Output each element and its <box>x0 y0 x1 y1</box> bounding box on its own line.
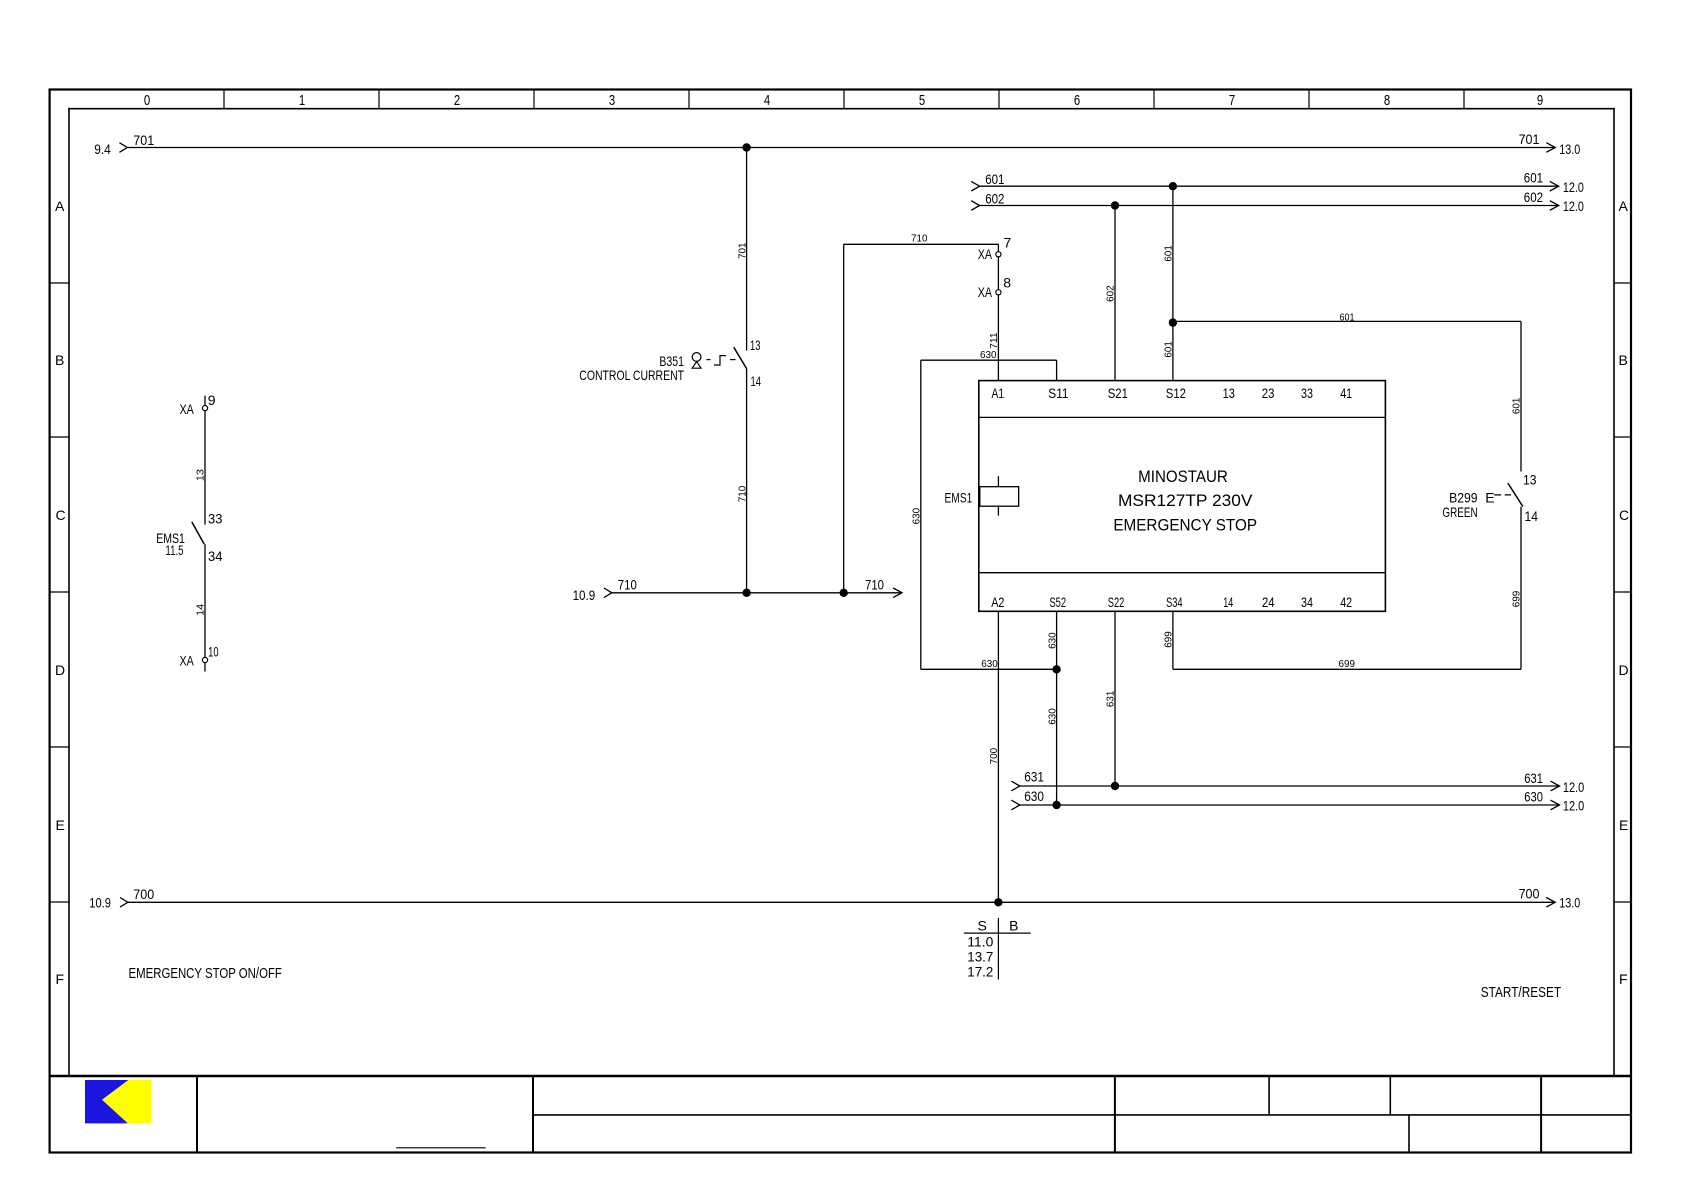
svg-text:14: 14 <box>751 373 762 389</box>
svg-text:B: B <box>1619 352 1628 368</box>
svg-text:601: 601 <box>1163 245 1175 262</box>
safety relay U1 MINOSTAUR MSR127TP 230V <box>979 381 1386 612</box>
svg-text:CONTROL CURRENT: CONTROL CURRENT <box>579 367 684 383</box>
svg-text:7: 7 <box>1004 234 1012 250</box>
junction 601/S12 <box>1169 182 1177 190</box>
svg-text:B: B <box>1009 918 1018 934</box>
svg-text:630: 630 <box>1046 632 1058 649</box>
svg-text:S52: S52 <box>1050 594 1067 610</box>
svg-text:701: 701 <box>1519 131 1540 147</box>
wire 13 XA:9 to EMS1:33 <box>195 411 207 525</box>
svg-text:S: S <box>978 918 987 934</box>
wire 14 EMS1:34 to XA:10 <box>195 544 207 657</box>
svg-text:33: 33 <box>208 511 223 527</box>
svg-text:601: 601 <box>1511 398 1523 415</box>
svg-text:10: 10 <box>208 643 219 659</box>
wire 630 loop S11 to S52 <box>911 349 1057 670</box>
svg-text:C: C <box>56 507 66 523</box>
wire 631 horizontal (to 12.0) <box>1011 781 1559 791</box>
svg-text:13: 13 <box>195 469 207 481</box>
svg-text:23: 23 <box>1262 385 1275 401</box>
svg-text:9: 9 <box>1537 92 1543 109</box>
svg-text:11.0: 11.0 <box>967 934 993 950</box>
svg-text:14: 14 <box>1223 594 1233 610</box>
svg-text:711: 711 <box>988 332 1000 349</box>
svg-text:42: 42 <box>1340 594 1352 610</box>
svg-text:631: 631 <box>1524 770 1543 786</box>
svg-text:START/RESET: START/RESET <box>1481 984 1561 1001</box>
svg-text:8: 8 <box>1003 274 1011 290</box>
svg-text:602: 602 <box>1524 189 1543 205</box>
wire 701 (9.4 to 13.0) <box>119 143 1555 153</box>
svg-text:630: 630 <box>981 658 998 670</box>
svg-text:A: A <box>1619 198 1629 214</box>
svg-text:630: 630 <box>980 349 997 361</box>
svg-text:630: 630 <box>1024 788 1044 804</box>
svg-text:601: 601 <box>985 171 1004 187</box>
svg-text:710: 710 <box>618 577 637 593</box>
wire 710 riser to XA:7 <box>844 233 999 593</box>
svg-text:33: 33 <box>1301 385 1313 401</box>
svg-text:710: 710 <box>736 486 748 503</box>
svg-text:MINOSTAUR: MINOSTAUR <box>1138 467 1228 486</box>
svg-text:6: 6 <box>1074 92 1080 109</box>
svg-text:GREEN: GREEN <box>1442 504 1477 520</box>
wire 630 horizontal (to 12.0) <box>1011 800 1559 810</box>
svg-text:A2: A2 <box>991 594 1004 610</box>
wire 602 riser to U1:S21 <box>1105 206 1117 381</box>
wire 602 horizontal (to 12.0) <box>971 201 1558 211</box>
svg-text:XA: XA <box>180 401 195 417</box>
wire 710 horizontal (10.9 to relay) <box>604 588 902 598</box>
wire 601 branch to B299:13 <box>1173 312 1523 472</box>
svg-text:699: 699 <box>1163 631 1175 648</box>
svg-text:701: 701 <box>736 242 748 259</box>
wire 631 S22 drop <box>1105 611 1117 786</box>
svg-text:9: 9 <box>208 392 216 408</box>
svg-text:12.0: 12.0 <box>1563 798 1585 814</box>
junction 601 branch to B299 <box>1169 318 1177 326</box>
svg-text:MSR127TP 230V: MSR127TP 230V <box>1118 491 1253 510</box>
svg-text:EMERGENCY STOP ON/OFF: EMERGENCY STOP ON/OFF <box>129 965 282 982</box>
wire 701 vertical to B351:13 <box>736 148 748 351</box>
svg-text:17.2: 17.2 <box>967 964 993 980</box>
wire 630 S52 drop <box>1046 611 1058 805</box>
svg-text:13.0: 13.0 <box>1559 141 1580 157</box>
title block <box>50 1076 1631 1152</box>
svg-text:B: B <box>55 352 64 368</box>
svg-text:A: A <box>55 198 65 214</box>
svg-text:631: 631 <box>1024 769 1044 785</box>
svg-text:12.0: 12.0 <box>1563 779 1585 795</box>
net label 701 left with source 9.4 <box>94 132 154 157</box>
svg-text:2: 2 <box>454 92 460 109</box>
svg-text:4: 4 <box>764 92 770 109</box>
svg-text:1: 1 <box>299 92 305 109</box>
connector XA pin 10 <box>180 643 219 671</box>
svg-text:S34: S34 <box>1166 594 1183 610</box>
svg-text:602: 602 <box>985 190 1004 206</box>
svg-text:701: 701 <box>133 132 154 148</box>
svg-text:601: 601 <box>1524 170 1543 186</box>
coil EMS1 <box>945 476 1019 515</box>
svg-text:E: E <box>1485 489 1494 505</box>
switch B351 CONTROL CURRENT <box>579 337 761 389</box>
svg-text:S22: S22 <box>1108 594 1125 610</box>
connector XA pin 8 <box>978 274 1012 300</box>
svg-text:14: 14 <box>195 604 207 616</box>
svg-text:13.0: 13.0 <box>1559 895 1580 911</box>
logo <box>85 1080 152 1123</box>
svg-text:630: 630 <box>1524 789 1543 805</box>
junction 710/XA7 branch <box>840 589 848 597</box>
svg-text:34: 34 <box>208 548 223 564</box>
junction 602/S21 <box>1111 201 1119 209</box>
svg-text:A1: A1 <box>992 385 1005 401</box>
svg-text:13: 13 <box>750 337 761 353</box>
svg-text:24: 24 <box>1262 594 1275 610</box>
net label 631 right with destination 12.0 <box>1524 770 1584 795</box>
svg-text:700: 700 <box>988 748 1000 765</box>
svg-text:10.9: 10.9 <box>89 894 111 910</box>
svg-text:E: E <box>56 817 65 833</box>
junction 700/A2 <box>994 898 1002 906</box>
svg-text:14: 14 <box>1525 508 1539 524</box>
svg-text:9.4: 9.4 <box>94 141 111 157</box>
net label 601 right with destination 12.0 <box>1524 170 1584 195</box>
junction 710/B351 <box>742 589 750 597</box>
svg-text:XA: XA <box>978 246 993 262</box>
svg-text:699: 699 <box>1511 591 1523 608</box>
svg-text:10.9: 10.9 <box>573 587 596 603</box>
wire 601 horizontal (to 12.0) <box>971 181 1558 191</box>
svg-text:710: 710 <box>865 577 884 593</box>
svg-text:34: 34 <box>1301 594 1313 610</box>
svg-text:700: 700 <box>133 886 154 902</box>
svg-text:3: 3 <box>609 92 615 109</box>
junction 630 bottom <box>1052 801 1060 809</box>
e-stop contact EMS1 33/34 <box>156 511 222 565</box>
svg-text:EMS1: EMS1 <box>945 489 973 505</box>
svg-text:13.7: 13.7 <box>967 948 993 964</box>
svg-text:D: D <box>55 662 65 678</box>
net label 700 left with source 10.9 <box>89 886 154 910</box>
svg-text:602: 602 <box>1105 285 1117 302</box>
svg-text:7: 7 <box>1229 92 1235 109</box>
net label 602 right with destination 12.0 <box>1524 189 1584 214</box>
wire XA:7 to XA:8 <box>997 257 999 290</box>
cross-reference table S/B <box>964 918 1031 980</box>
svg-text:631: 631 <box>1105 691 1117 708</box>
wire 710 B351:14 down to node <box>736 369 748 593</box>
svg-text:E: E <box>1619 817 1628 833</box>
svg-text:13: 13 <box>1523 472 1537 488</box>
svg-text:S12: S12 <box>1166 385 1186 401</box>
connector XA pin 7 <box>978 234 1012 262</box>
svg-text:710: 710 <box>911 233 928 245</box>
connector XA pin 9 <box>180 392 216 417</box>
svg-text:5: 5 <box>919 92 925 109</box>
svg-text:13: 13 <box>1223 385 1235 401</box>
svg-text:630: 630 <box>1046 708 1058 725</box>
svg-text:EMERGENCY STOP: EMERGENCY STOP <box>1113 515 1257 534</box>
net label 700 right with destination 13.0 <box>1519 886 1581 911</box>
svg-text:700: 700 <box>1519 886 1540 902</box>
wire 699 S34 to B299:14 <box>1163 507 1523 670</box>
svg-text:12.0: 12.0 <box>1563 179 1584 195</box>
wire 711 XA:8 to U1:A1 <box>988 295 1000 381</box>
net label 630 right with destination 12.0 <box>1524 789 1584 814</box>
net label 710 left with source 10.9 <box>573 577 637 603</box>
svg-text:601: 601 <box>1163 341 1175 358</box>
svg-text:601: 601 <box>1340 312 1355 324</box>
net label 701 right with destination 13.0 <box>1519 131 1581 157</box>
svg-text:S11: S11 <box>1048 385 1068 401</box>
svg-text:41: 41 <box>1340 385 1352 401</box>
svg-text:XA: XA <box>978 284 993 300</box>
svg-text:630: 630 <box>911 508 923 525</box>
junction 701/B351 <box>742 143 750 151</box>
svg-text:0: 0 <box>144 92 150 109</box>
svg-text:11.5: 11.5 <box>165 542 183 558</box>
wire 700 horizontal (10.9 to 13.0) <box>120 898 1555 908</box>
wire 601 riser to U1:S12 <box>1163 186 1175 380</box>
junction 631/S22 <box>1111 782 1119 790</box>
svg-text:XA: XA <box>180 652 195 668</box>
svg-text:D: D <box>1619 662 1629 678</box>
svg-text:S21: S21 <box>1108 385 1128 401</box>
svg-text:F: F <box>1619 971 1628 987</box>
svg-text:699: 699 <box>1339 658 1356 670</box>
junction 630/S52 <box>1052 665 1060 673</box>
svg-text:B299: B299 <box>1449 489 1478 505</box>
svg-text:F: F <box>56 971 65 987</box>
svg-text:C: C <box>1619 507 1629 523</box>
svg-text:12.0: 12.0 <box>1563 198 1584 214</box>
wire 700 A2 drop <box>988 611 1000 902</box>
lamp contact B299 E GREEN <box>1442 472 1538 524</box>
svg-text:8: 8 <box>1384 92 1390 109</box>
